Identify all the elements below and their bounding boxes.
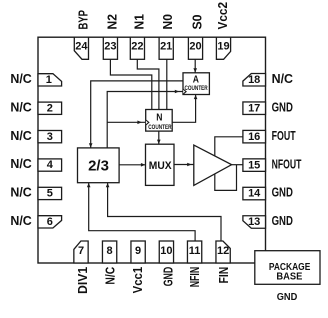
svg-text:GND: GND (160, 267, 175, 287)
svg-text:8: 8 (107, 245, 113, 257)
svg-text:A: A (193, 74, 200, 86)
svg-text:19: 19 (217, 41, 229, 53)
svg-text:DIV1: DIV1 (75, 267, 90, 294)
svg-text:BASE: BASE (276, 272, 302, 283)
svg-text:10: 10 (160, 245, 172, 257)
svg-text:Vcc2: Vcc2 (215, 2, 230, 30)
svg-text:COUNTER: COUNTER (185, 85, 208, 92)
svg-text:9: 9 (135, 245, 141, 257)
svg-text:21: 21 (160, 41, 172, 53)
svg-text:BYP: BYP (75, 10, 90, 30)
svg-text:N/C: N/C (10, 185, 31, 200)
svg-text:24: 24 (75, 41, 88, 53)
svg-text:15: 15 (248, 159, 260, 171)
svg-text:N/C: N/C (272, 71, 293, 86)
svg-text:N/C: N/C (10, 71, 31, 86)
svg-text:7: 7 (78, 245, 84, 257)
svg-text:16: 16 (248, 131, 260, 143)
svg-text:23: 23 (104, 41, 116, 53)
svg-text:N/C: N/C (10, 156, 31, 171)
svg-text:N/C: N/C (10, 99, 31, 114)
svg-text:N2: N2 (104, 14, 119, 29)
svg-text:GND: GND (277, 292, 298, 303)
svg-text:N/C: N/C (10, 213, 31, 228)
svg-text:S0: S0 (189, 15, 204, 30)
svg-text:GND: GND (272, 185, 293, 200)
svg-text:N: N (156, 112, 162, 124)
svg-text:N0: N0 (160, 14, 175, 29)
svg-text:17: 17 (248, 102, 260, 114)
svg-text:FOUT: FOUT (272, 128, 296, 143)
svg-text:6: 6 (47, 216, 53, 228)
svg-text:COUNTER: COUNTER (148, 124, 171, 131)
svg-text:N/C: N/C (10, 128, 31, 143)
svg-text:Vcc1: Vcc1 (130, 267, 145, 294)
svg-text:N1: N1 (131, 14, 146, 29)
svg-text:4: 4 (47, 159, 54, 171)
svg-text:18: 18 (248, 74, 260, 86)
svg-text:MUX: MUX (149, 160, 172, 172)
svg-text:3: 3 (47, 131, 53, 143)
svg-text:2/3: 2/3 (88, 158, 109, 175)
svg-text:NFOUT: NFOUT (272, 156, 302, 171)
svg-text:1: 1 (46, 74, 52, 86)
svg-text:N/C: N/C (102, 267, 117, 285)
svg-text:FIN: FIN (216, 267, 231, 284)
svg-text:20: 20 (189, 41, 201, 53)
svg-text:11: 11 (189, 245, 201, 257)
svg-text:5: 5 (47, 188, 53, 200)
svg-text:13: 13 (248, 216, 260, 228)
svg-text:12: 12 (217, 245, 229, 257)
svg-text:NFIN: NFIN (187, 267, 202, 288)
svg-text:GND: GND (272, 99, 293, 114)
svg-text:22: 22 (131, 41, 143, 53)
svg-text:14: 14 (248, 188, 261, 200)
svg-text:2: 2 (47, 102, 53, 114)
svg-text:GND: GND (272, 213, 293, 228)
